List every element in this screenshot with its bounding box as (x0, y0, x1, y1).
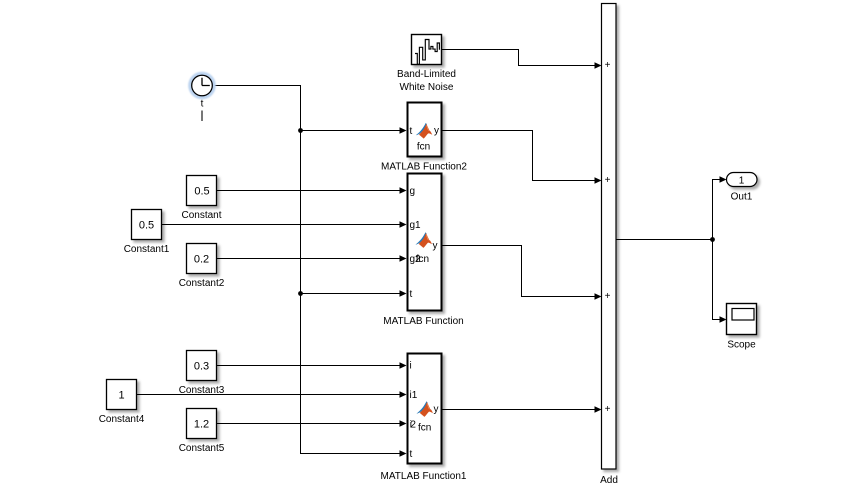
svg-text:fcn: fcn (418, 423, 431, 434)
wire Band-Limited White Noise to Add input 1 (442, 50, 602, 69)
constant Constant2 (187, 244, 217, 274)
svg-text:fcn: fcn (417, 142, 430, 153)
wire Constant1 to g1 (162, 221, 407, 227)
svg-text:+: + (605, 175, 611, 186)
svg-text:t: t (410, 289, 413, 300)
svg-text:0.5: 0.5 (194, 186, 209, 198)
svg-text:y: y (434, 404, 439, 415)
svg-text:1.2: 1.2 (194, 419, 209, 431)
MATLAB Function U-fcn (408, 174, 442, 311)
svg-text:0.2: 0.2 (194, 254, 209, 266)
svg-text:1: 1 (118, 390, 124, 402)
constant Constant4 (107, 380, 137, 410)
svg-text:Band-Limited: Band-Limited (397, 69, 456, 80)
wire clock to trunk and MATLAB Function1 t input (213, 86, 407, 457)
svg-text:Constant5: Constant5 (179, 443, 225, 454)
svg-text:Scope: Scope (727, 340, 756, 351)
node junction Add output (710, 237, 715, 242)
scope block (727, 304, 757, 335)
svg-text:fcn: fcn (416, 254, 429, 265)
svg-text:Out1: Out1 (731, 192, 753, 203)
svg-text:1: 1 (739, 176, 745, 187)
svg-text:t: t (410, 126, 413, 137)
svg-text:MATLAB Function: MATLAB Function (383, 316, 463, 327)
band-limited white noise block (412, 35, 442, 65)
wire MATLAB Function1 y to Add input 4 (443, 406, 602, 412)
wire Constant5 to i2 (217, 420, 407, 426)
svg-text:Add: Add (600, 475, 618, 486)
constant Constant1 (132, 210, 162, 240)
svg-text:y: y (433, 241, 438, 252)
svg-text:+: + (605, 291, 611, 302)
outport Out1 (727, 173, 758, 187)
svg-text:Constant3: Constant3 (179, 385, 225, 396)
clock t (188, 72, 216, 100)
node junction on trunk to MATLAB Function2 t (298, 127, 406, 133)
svg-text:+: + (605, 404, 611, 415)
wire Constant4 to i1 (137, 391, 407, 397)
svg-text:Constant4: Constant4 (99, 414, 145, 425)
wire Add output to junction (617, 239, 713, 241)
add block Add (602, 4, 617, 470)
svg-text:+: + (605, 60, 611, 71)
svg-text:Constant1: Constant1 (124, 244, 170, 255)
svg-text:i1: i1 (410, 390, 418, 401)
wire MATLAB Function y to Add input 3 (443, 246, 602, 300)
wire junction to Out1 (713, 176, 727, 239)
svg-text:0.3: 0.3 (194, 361, 209, 373)
svg-text:g1: g1 (410, 220, 422, 231)
svg-text:i: i (410, 361, 412, 372)
svg-text:White Noise: White Noise (400, 82, 454, 93)
constant Constant (187, 176, 217, 206)
svg-text:MATLAB Function1: MATLAB Function1 (381, 471, 467, 482)
svg-text:g: g (410, 186, 416, 197)
MATLAB Function1 U-fcn1 (408, 354, 442, 464)
clock name edit cursor (201, 111, 203, 122)
svg-text:t: t (410, 449, 413, 460)
svg-text:MATLAB Function2: MATLAB Function2 (381, 162, 467, 173)
MATLAB Function2 U-fcn2 (408, 103, 442, 157)
svg-text:0.5: 0.5 (139, 220, 154, 232)
svg-text:t: t (201, 99, 204, 110)
wire Constant to g (217, 187, 407, 193)
wire junction to Scope (713, 240, 727, 323)
svg-text:y: y (434, 126, 439, 137)
wire Constant2 to g2 (217, 255, 407, 261)
node junction on trunk to MATLAB Function t (298, 290, 406, 296)
wire MATLAB Function2 y to Add input 2 (443, 131, 602, 184)
svg-text:Constant: Constant (181, 210, 221, 221)
svg-text:2: 2 (410, 420, 416, 431)
constant Constant5 (187, 409, 217, 439)
wire Constant3 to i (217, 362, 407, 368)
constant Constant3 (187, 351, 217, 381)
svg-text:Constant2: Constant2 (179, 278, 225, 289)
